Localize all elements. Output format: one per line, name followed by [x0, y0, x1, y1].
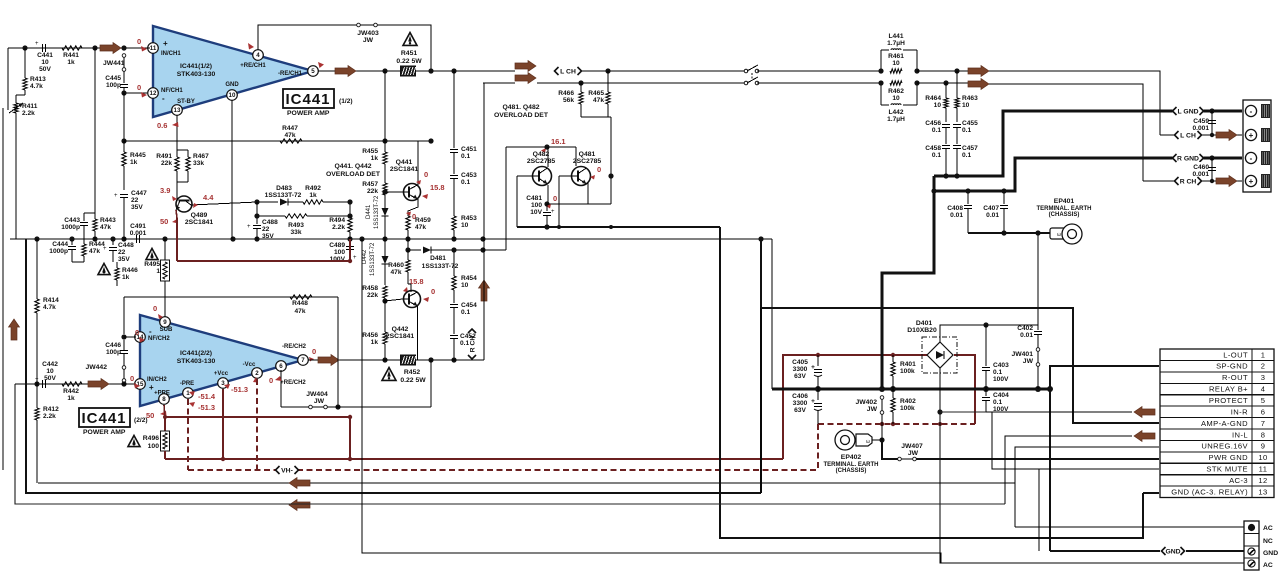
svg-text:6: 6 — [1261, 407, 1266, 416]
svg-text:2: 2 — [1261, 362, 1266, 371]
svg-text:(CHASSIS): (CHASSIS) — [836, 468, 867, 474]
svg-text:22k: 22k — [161, 160, 172, 167]
wire D481 right — [431, 247, 506, 252]
svg-text:10: 10 — [962, 102, 970, 109]
label VH- — [276, 465, 299, 475]
svg-text:1.7µH: 1.7µH — [887, 116, 905, 123]
wire Q482 base — [517, 176, 532, 227]
wire bus to D481 row — [405, 239, 421, 253]
capacitor C491 0.001 — [124, 223, 147, 243]
svg-text:R493: R493 — [288, 222, 304, 229]
svg-text:1SS133T-72: 1SS133T-72 — [374, 195, 380, 229]
svg-text:C446: C446 — [105, 342, 121, 349]
svg-text:C403: C403 — [993, 362, 1009, 369]
label IC441 (1/2) POWER AMP — [283, 89, 353, 117]
svg-text:0.1: 0.1 — [461, 309, 470, 316]
svg-text:13: 13 — [1258, 487, 1267, 496]
label L CH term — [1175, 130, 1202, 140]
svg-text:D481: D481 — [430, 255, 446, 262]
svg-text:POWER AMP: POWER AMP — [83, 429, 126, 436]
capacitor C406 3300 63V — [792, 389, 822, 424]
svg-text:R458: R458 — [362, 285, 378, 292]
svg-text:4: 4 — [1261, 385, 1266, 394]
speaker terminal block — [1243, 100, 1271, 192]
svg-text:D401: D401 — [916, 320, 932, 327]
svg-text:-51.4: -51.4 — [198, 392, 216, 401]
svg-text:IC441(2/2): IC441(2/2) — [180, 350, 212, 357]
wire spk L to terminal — [989, 71, 1160, 135]
svg-text:+: + — [114, 193, 118, 199]
svg-text:0.01: 0.01 — [950, 212, 963, 219]
svg-text:+RE/CH2: +RE/CH2 — [280, 380, 306, 386]
svg-text:2SC2785: 2SC2785 — [527, 158, 556, 165]
svg-text:C488: C488 — [262, 219, 278, 226]
capacitor C408 0.01 — [947, 188, 972, 233]
jumper JW442 — [85, 354, 126, 387]
wire relay gnd row13 — [1143, 492, 1159, 494]
svg-text:R CH: R CH — [1180, 179, 1197, 186]
resistor R496 100 — [143, 431, 170, 451]
svg-text:UNREG.16V: UNREG.16V — [1201, 442, 1248, 451]
voltage 0 pin9 — [153, 304, 163, 319]
capacitor C455 0.1 — [953, 120, 978, 144]
wire frame mid — [26, 239, 761, 493]
resistor R459 47k — [406, 216, 431, 239]
diode D442 1SS133T-72 — [362, 239, 389, 285]
svg-text:C444: C444 — [52, 241, 68, 248]
wire Q441 emitter — [408, 199, 418, 216]
inductor L441 1.7uH — [878, 33, 919, 74]
svg-text:9: 9 — [163, 319, 167, 326]
svg-text:R453: R453 — [461, 215, 477, 222]
wire spk R to terminal — [989, 84, 1143, 181]
svg-text:L CH: L CH — [560, 69, 576, 76]
wire stk mute — [992, 412, 1159, 551]
wire amp-a-gnd — [761, 308, 1159, 423]
wire L441 to arrow — [917, 68, 968, 73]
svg-text:+: + — [811, 364, 815, 371]
svg-text:POWER AMP: POWER AMP — [287, 110, 330, 117]
svg-text:PWR GND: PWR GND — [1208, 453, 1248, 462]
warning triangle R495 — [146, 248, 158, 259]
svg-text:0.1: 0.1 — [932, 127, 941, 134]
wire pin13 down — [176, 115, 178, 148]
svg-text:63V: 63V — [794, 407, 806, 414]
wire R447 right — [382, 138, 433, 143]
wire LCH to switch — [582, 68, 744, 73]
svg-text:-RE/CH2: -RE/CH2 — [282, 344, 307, 350]
diode D441 1SS133T-72 — [366, 195, 389, 239]
wire maroon riser — [783, 355, 927, 459]
diode D481 1SS133T-72 — [422, 247, 459, 271]
wire EP402 link — [872, 424, 898, 459]
svg-text:2.2k: 2.2k — [43, 413, 56, 420]
resistor R463 10 — [955, 71, 978, 122]
capacitor C446 100p — [105, 331, 136, 356]
IC441(2/2) pin 15 — [135, 377, 168, 392]
svg-text:3.9: 3.9 — [160, 186, 170, 195]
svg-text:SP-GND: SP-GND — [1216, 362, 1248, 371]
capacitor C454 0.1 — [450, 302, 477, 334]
svg-text:Q481: Q481 — [579, 151, 596, 158]
wire unreg16 — [1015, 447, 1159, 527]
svg-text:4: 4 — [256, 52, 260, 59]
signal arrow L CH term — [1216, 130, 1237, 141]
svg-text:IC441: IC441 — [285, 91, 330, 108]
jumper JW403 — [357, 23, 379, 44]
svg-text:47k: 47k — [100, 224, 111, 231]
svg-text:22: 22 — [118, 249, 126, 256]
wire left vertical B — [2, 108, 4, 470]
resistor R461 10 — [888, 53, 904, 73]
wire to Q489 base — [176, 186, 178, 196]
svg-text:47k: 47k — [284, 132, 295, 139]
svg-text:0: 0 — [130, 374, 134, 383]
svg-text:C456: C456 — [925, 120, 941, 127]
svg-text:+: + — [811, 398, 815, 405]
resistor R402 100k — [891, 389, 916, 424]
svg-text:8: 8 — [1261, 430, 1266, 439]
svg-text:VH-: VH- — [281, 468, 293, 475]
wire NF to R447 — [124, 140, 385, 142]
transistor Q481 2SC2785 — [572, 151, 602, 186]
svg-text:IC441: IC441 — [81, 410, 126, 427]
svg-text:1k: 1k — [309, 192, 317, 199]
svg-text:100k: 100k — [900, 368, 915, 375]
resistor R411 — [9, 95, 38, 239]
capacitor C452 0.1 — [450, 333, 476, 363]
svg-text:1k: 1k — [67, 59, 75, 66]
svg-text:47k: 47k — [593, 97, 604, 104]
wire Q441 base — [382, 189, 403, 194]
svg-text:SUB: SUB — [160, 327, 173, 333]
svg-text:L442: L442 — [888, 109, 903, 116]
svg-text:R401: R401 — [900, 361, 916, 368]
capacitor C459 0.001 — [1185, 111, 1216, 135]
wire pin7 out — [308, 357, 484, 362]
svg-text:ω: ω — [866, 439, 870, 445]
svg-text:-: - — [162, 94, 165, 103]
capacitor C402 0.01 — [1017, 233, 1042, 348]
svg-text:AC-3: AC-3 — [1229, 476, 1248, 485]
svg-text:4.7k: 4.7k — [43, 304, 56, 311]
label L GND — [1173, 106, 1204, 116]
wire maroon bridge right — [954, 355, 975, 424]
svg-text:JW404: JW404 — [306, 391, 328, 398]
resistor R445 1k — [122, 141, 146, 190]
label overload det 481 — [494, 104, 549, 119]
jumper JW401 — [1011, 348, 1039, 389]
svg-text:0.01: 0.01 — [1020, 332, 1033, 339]
bridge rectifier D401 D10XB20 — [907, 320, 957, 373]
svg-text:ST-BY: ST-BY — [177, 99, 195, 105]
svg-text:35V: 35V — [131, 204, 143, 211]
label R CH term — [1175, 176, 1202, 186]
capacitor C403 0.1 100V — [982, 325, 1009, 389]
svg-text:11: 11 — [1259, 465, 1268, 474]
svg-text:R412: R412 — [43, 406, 59, 413]
svg-text:2.2k: 2.2k — [332, 224, 345, 231]
svg-text:RELAY B+: RELAY B+ — [1209, 385, 1248, 394]
wire pin4 loop — [258, 25, 431, 72]
voltage 0 pin7 — [309, 347, 316, 362]
svg-text:Q442: Q442 — [392, 326, 409, 333]
resistor R456 1k — [362, 301, 387, 363]
resistor R447 — [280, 125, 302, 143]
svg-text:AMP-A-GND: AMP-A-GND — [1201, 419, 1248, 428]
svg-text:Q482: Q482 — [533, 151, 550, 158]
label IC441 (2/2) POWER AMP — [79, 408, 148, 436]
svg-text:C455: C455 — [962, 120, 978, 127]
label L CH — [555, 66, 582, 76]
svg-text:+: + — [353, 255, 357, 261]
wire frame outer — [15, 384, 1005, 504]
svg-text:47k: 47k — [294, 308, 305, 315]
capacitor C447 22 35V — [114, 190, 147, 239]
warning triangle R452 — [382, 368, 396, 381]
svg-text:JW: JW — [1023, 358, 1034, 365]
svg-text:3300: 3300 — [793, 400, 808, 407]
IC441(1/2) pin 12 — [148, 88, 184, 103]
svg-text:47k: 47k — [415, 224, 426, 231]
wire Q489 collector out — [191, 202, 257, 205]
IC441(2/2) pin 9 SUB — [160, 317, 173, 333]
svg-text:OVERLOAD DET: OVERLOAD DET — [326, 171, 381, 178]
svg-text:100V: 100V — [330, 256, 346, 263]
capacitor C443 1000p — [61, 217, 88, 239]
svg-text:-Vcc: -Vcc — [243, 362, 256, 368]
svg-text:100p: 100p — [106, 82, 121, 89]
resistor R492 1k — [288, 185, 350, 204]
svg-text:7: 7 — [1261, 419, 1266, 428]
svg-text:NC: NC — [1263, 538, 1273, 545]
svg-text:R456: R456 — [362, 332, 378, 339]
svg-text:10: 10 — [1258, 453, 1267, 462]
voltage 0 C481 — [546, 194, 557, 209]
wire main bus — [10, 236, 772, 241]
voltage 0 pin6 — [269, 376, 282, 385]
svg-text:9: 9 — [1261, 442, 1266, 451]
voltage 0 pin11 — [137, 37, 147, 52]
svg-text:100V: 100V — [993, 376, 1009, 383]
svg-text:22k: 22k — [367, 188, 378, 195]
wire input CH1 — [8, 47, 150, 49]
svg-text:C460: C460 — [1193, 164, 1209, 171]
svg-text:13: 13 — [174, 107, 181, 114]
voltage -51.4 pin1 — [189, 391, 216, 401]
svg-text:0.1: 0.1 — [460, 340, 469, 347]
svg-text:JW: JW — [363, 37, 374, 44]
wire sp-gnd — [1047, 366, 1159, 551]
IC441(2/2) pin 1 — [180, 381, 194, 398]
capacitor C489 100 100V — [329, 239, 357, 263]
resistor R467 33k — [177, 150, 209, 182]
svg-text:C458: C458 — [925, 145, 941, 152]
svg-text:JW: JW — [908, 450, 919, 457]
svg-text:+: + — [247, 224, 251, 230]
capacitor C481 100 10V — [526, 195, 555, 227]
voltage 0 Q441e — [406, 212, 416, 222]
svg-text:C448: C448 — [118, 242, 134, 249]
resistor R448 47k — [290, 295, 312, 315]
voltage 0 Q481 — [590, 165, 601, 180]
svg-text:+: + — [163, 39, 168, 48]
svg-text:2SC1841: 2SC1841 — [185, 219, 214, 226]
IC441(1/2) pin 4 — [240, 43, 266, 69]
svg-text:+Vcc: +Vcc — [214, 371, 229, 377]
svg-text:1k: 1k — [122, 274, 130, 281]
wire gnd down right — [720, 227, 1143, 538]
capacitor C442 — [35, 361, 58, 388]
resistor R494 2.2k — [329, 199, 352, 239]
svg-text:Q489: Q489 — [191, 212, 208, 219]
svg-text:C491: C491 — [130, 223, 146, 230]
svg-text:12: 12 — [150, 90, 157, 97]
svg-text:22k: 22k — [367, 292, 378, 299]
resistor R491 22k — [156, 148, 179, 186]
svg-text:R447: R447 — [282, 125, 298, 132]
svg-text:1k: 1k — [130, 159, 138, 166]
IC441(2/2) pin 2 — [243, 362, 263, 378]
wire bus x761 link — [760, 308, 762, 493]
wire maroon pin1 dashed — [187, 399, 189, 470]
voltage -51.3 pin1 — [189, 402, 215, 412]
wire out to LCH — [415, 68, 515, 73]
svg-text:-RE/CH1: -RE/CH1 — [278, 71, 303, 77]
svg-text:100k: 100k — [900, 405, 915, 412]
wire RCH line — [483, 80, 744, 85]
voltage 0 Q441c — [416, 170, 428, 185]
svg-text:C457: C457 — [962, 145, 978, 152]
wire Q489c to D483 — [254, 199, 278, 204]
svg-text:D10XB20: D10XB20 — [907, 327, 937, 334]
signal arrow CH1 out — [335, 66, 356, 77]
terminal EP401 — [1037, 198, 1092, 244]
svg-text:50V: 50V — [39, 66, 51, 73]
voltage 15.8 Q442 — [403, 277, 424, 293]
capacitor C458 0.1 — [925, 145, 950, 176]
svg-text:C404: C404 — [993, 392, 1009, 399]
svg-text:100: 100 — [334, 249, 345, 256]
capacitor C445 — [105, 71, 128, 93]
svg-text:0: 0 — [312, 347, 316, 356]
svg-text:IN/CH1: IN/CH1 — [161, 51, 181, 57]
relay switch contacts — [744, 65, 759, 85]
svg-text:100: 100 — [148, 443, 160, 450]
resistor R464 10 — [925, 83, 948, 122]
svg-text:10V: 10V — [530, 209, 542, 216]
signal arrow CH1 in — [100, 43, 121, 54]
voltage 0 pin2 — [253, 377, 258, 383]
resistor R460 47k — [388, 250, 410, 284]
wire pwr gnd — [916, 458, 1159, 460]
svg-text:R414: R414 — [43, 297, 59, 304]
svg-text:22: 22 — [262, 226, 270, 233]
svg-text:L-OUT: L-OUT — [1223, 350, 1248, 359]
wire chassis route — [362, 239, 941, 563]
wire input CH2 — [15, 381, 136, 386]
wire gnd bus Q481 — [517, 224, 720, 229]
svg-text:-51.3: -51.3 — [231, 385, 248, 394]
IC441(2/2) pin 3 — [214, 371, 229, 388]
svg-text:R463: R463 — [962, 95, 978, 102]
svg-text:10: 10 — [461, 222, 469, 229]
wire in-r route — [940, 411, 1132, 413]
label R CH vertical — [468, 329, 477, 359]
wire Q481 base — [559, 176, 571, 227]
svg-text:0: 0 — [137, 37, 141, 46]
wire L442 to arrow — [917, 80, 968, 85]
svg-text:0.1: 0.1 — [932, 152, 941, 159]
wire NF/CH1 vertical — [121, 93, 126, 144]
wire pin12 stub — [121, 90, 147, 95]
wire pin5 out — [318, 68, 401, 73]
IC441(1/2) pin 5 — [278, 62, 324, 77]
capacitor C407 0.01 — [983, 188, 1008, 233]
svg-text:+: + — [1249, 131, 1254, 140]
svg-text:IN-R: IN-R — [1231, 407, 1248, 416]
svg-text:R402: R402 — [900, 398, 916, 405]
svg-text:2SC1841: 2SC1841 — [390, 166, 419, 173]
svg-text:+: + — [1249, 177, 1254, 186]
resistor R412 2.2k — [35, 384, 59, 483]
svg-text:1SS133T-72: 1SS133T-72 — [422, 263, 459, 270]
svg-text:L CH: L CH — [1180, 133, 1196, 140]
signal arrow spk L — [968, 66, 989, 77]
capacitor C460 0.001 — [1185, 158, 1216, 181]
wire R CH vertical — [483, 83, 485, 360]
op-amp IC441 (1/2) body — [153, 26, 313, 117]
resistor R413 — [16, 48, 46, 95]
svg-text:STK MUTE: STK MUTE — [1206, 465, 1248, 474]
svg-text:R448: R448 — [292, 300, 308, 307]
svg-text:47k: 47k — [89, 248, 100, 255]
svg-text:GND (AC-3. RELAY): GND (AC-3. RELAY) — [1171, 487, 1248, 496]
signal arrow R CH up — [479, 280, 490, 301]
wire pin10 gnd down — [231, 100, 233, 239]
svg-text:0.01: 0.01 — [986, 212, 999, 219]
svg-text:EP401: EP401 — [1054, 198, 1075, 205]
svg-text:2SC2785: 2SC2785 — [573, 158, 602, 165]
svg-text:63V: 63V — [794, 373, 806, 380]
wire in-l route — [15, 436, 1132, 504]
svg-text:16.1: 16.1 — [551, 137, 566, 146]
svg-text:L GND: L GND — [1177, 109, 1198, 116]
svg-text:33k: 33k — [193, 160, 204, 167]
svg-text:JW: JW — [867, 406, 878, 413]
svg-text:1k: 1k — [67, 395, 75, 402]
svg-text:8: 8 — [162, 396, 166, 403]
svg-text:R452: R452 — [404, 369, 420, 376]
svg-text:10: 10 — [46, 368, 54, 375]
transistor Q441 2SC1841 — [390, 159, 421, 201]
resistor R493 33k — [254, 213, 350, 236]
svg-text:56k: 56k — [563, 97, 574, 104]
signal arrow frame a — [289, 478, 310, 489]
IC441(2/2) pin 7 — [282, 344, 308, 365]
svg-text:0: 0 — [137, 83, 141, 92]
svg-text:R494: R494 — [329, 217, 345, 224]
resistor R453 10 — [452, 212, 477, 239]
wire Q481 emitter — [588, 173, 614, 204]
svg-text:GND: GND — [225, 82, 239, 88]
svg-text:R466: R466 — [558, 90, 574, 97]
svg-text:47k: 47k — [390, 269, 401, 276]
wire L GND bus — [934, 108, 1242, 178]
connector CN table — [1160, 349, 1274, 498]
svg-text:35V: 35V — [262, 233, 274, 240]
svg-text:10: 10 — [934, 102, 942, 109]
